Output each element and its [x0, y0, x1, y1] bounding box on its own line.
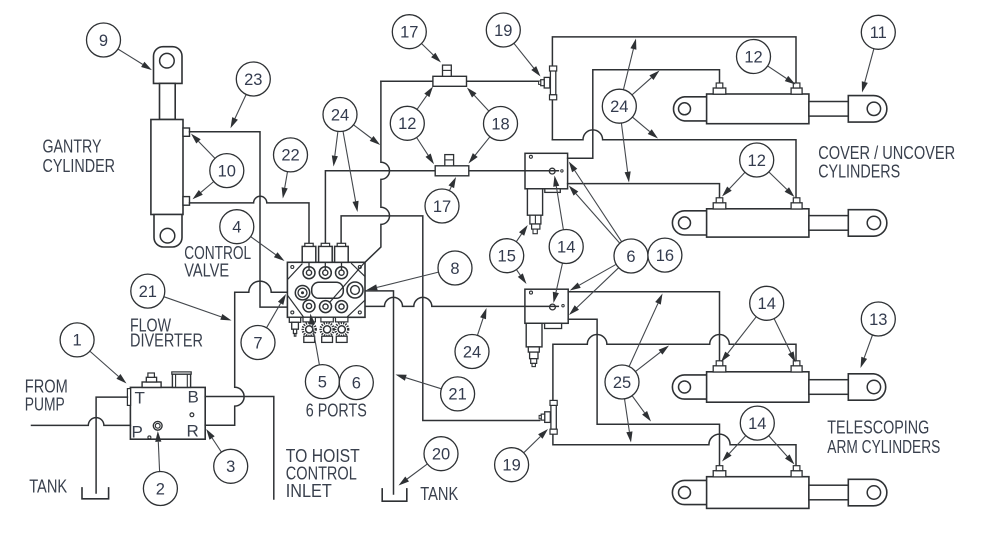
svg-text:P: P — [132, 423, 143, 442]
callout 22 — [274, 138, 308, 199]
svg-text:15: 15 — [498, 248, 516, 266]
svg-text:B: B — [188, 388, 199, 407]
svg-text:4: 4 — [232, 219, 241, 237]
svg-text:24: 24 — [610, 98, 628, 116]
svg-text:6: 6 — [352, 374, 361, 392]
svg-text:8: 8 — [450, 260, 459, 278]
svg-text:PUMP: PUMP — [25, 394, 65, 414]
cover cylinder 2 — [672, 209, 886, 237]
svg-text:14: 14 — [557, 238, 575, 256]
svg-text:TANK: TANK — [420, 484, 458, 504]
wire relief U2 to telescoping cylinder 1 cap port — [568, 292, 719, 361]
svg-text:14: 14 — [748, 415, 766, 433]
label TELESCOPING ARM CYLINDERS — [827, 418, 940, 457]
svg-text:25: 25 — [613, 374, 631, 392]
callout 1 — [60, 323, 126, 384]
wire cover inner loop — [568, 70, 720, 158]
relief valve block U1 body — [525, 153, 568, 189]
svg-text:16: 16 — [656, 247, 674, 265]
port cover cylinder 2 rod side — [791, 198, 802, 209]
tank symbol bottom — [382, 489, 407, 501]
svg-text:6 PORTS: 6 PORTS — [306, 400, 367, 420]
port cover cylinder 1 rod side — [791, 83, 802, 94]
label TANK left — [29, 477, 67, 497]
tee fitting 19 top — [539, 66, 557, 100]
wire valve back port riser — [365, 81, 390, 262]
svg-text:12: 12 — [748, 152, 766, 170]
svg-text:20: 20 — [432, 446, 450, 464]
callout 9 — [87, 23, 152, 70]
callout 24 bottom — [455, 308, 489, 369]
cover cylinder 1 — [673, 94, 886, 124]
wire valve port 8 to tank bottom — [365, 291, 394, 494]
svg-text:VALVE: VALVE — [184, 261, 229, 281]
callout 8 — [367, 251, 473, 290]
callout 14 mid — [549, 176, 583, 304]
wire gantry upper port to valve left lower port — [190, 132, 288, 307]
svg-text:TELESCOPING: TELESCOPING — [827, 418, 929, 438]
label CONTROL VALVE — [184, 243, 251, 281]
wire relief U2 lower to telescoping cylinder 2 cap port — [568, 319, 719, 465]
wire tee 2 up to telescoping cylinder 1 rod port — [553, 335, 796, 401]
inline fitting 17 top — [433, 65, 467, 86]
svg-text:COVER / UNCOVER: COVER / UNCOVER — [818, 143, 955, 163]
inline fitting 17 bottom — [435, 155, 469, 176]
svg-text:17: 17 — [433, 198, 451, 216]
svg-text:INLET: INLET — [286, 481, 332, 501]
svg-text:12: 12 — [398, 115, 416, 133]
wire valve left mid port to diverter R port — [205, 281, 287, 425]
wire valve lower right port to relief U2 — [365, 297, 558, 306]
svg-text:18: 18 — [491, 115, 509, 133]
callout 14 bottom — [722, 406, 795, 464]
svg-text:7: 7 — [253, 334, 262, 352]
svg-text:R: R — [187, 422, 199, 441]
svg-text:24: 24 — [331, 106, 349, 124]
port cover cylinder 2 cap side — [713, 198, 726, 209]
callout 24 top — [323, 98, 380, 213]
port telescoping cylinder 2 rod side — [791, 466, 802, 477]
label 6 PORTS — [306, 400, 367, 420]
label FROM PUMP — [25, 376, 68, 414]
port telescoping cylinder 1 rod side — [791, 361, 802, 372]
svg-text:TANK: TANK — [29, 477, 67, 497]
callout 17 top — [392, 15, 441, 63]
label TANK bottom — [420, 484, 458, 504]
svg-text:CYLINDERS: CYLINDERS — [818, 162, 900, 182]
port cover cylinder 1 cap side — [713, 83, 726, 94]
svg-text:3: 3 — [226, 458, 235, 476]
svg-text:1: 1 — [73, 332, 82, 350]
wire gantry lower port to valve cap 1 — [190, 196, 310, 243]
callout 17 bottom — [425, 177, 459, 223]
wire tee 2 down to telescoping cylinder 2 rod port — [553, 433, 796, 466]
callout 25 — [605, 294, 669, 443]
callout 19 top — [486, 13, 540, 77]
svg-text:5: 5 — [318, 373, 327, 391]
telescoping cylinder 1 — [672, 372, 885, 402]
svg-text:21: 21 — [448, 386, 466, 404]
svg-text:DIVERTER: DIVERTER — [130, 331, 203, 351]
callout 21 top — [131, 274, 232, 320]
callout 12 top right — [737, 40, 796, 85]
callout 5 — [305, 314, 339, 399]
tee fitting 19 bottom — [539, 400, 557, 434]
wire diverter T port to tank left — [96, 397, 127, 493]
callout 10 — [191, 134, 244, 200]
wire cover outer loop top — [552, 37, 796, 140]
flow diverter fittings and port letters — [132, 372, 199, 442]
svg-text:12: 12 — [744, 48, 762, 66]
callout 2 — [143, 431, 177, 506]
svg-text:ARM CYLINDERS: ARM CYLINDERS — [827, 437, 940, 457]
wire cover outer loop bottom — [552, 130, 796, 198]
callout 6 bottom — [339, 366, 373, 400]
svg-text:9: 9 — [99, 32, 108, 50]
svg-text:10: 10 — [218, 162, 236, 180]
port telescoping cylinder 2 cap side — [713, 466, 726, 477]
control valve — [287, 243, 365, 342]
svg-text:11: 11 — [870, 24, 887, 42]
callout 6 right — [569, 162, 648, 316]
label FLOW DIVERTER — [130, 316, 203, 351]
svg-text:T: T — [135, 389, 145, 408]
wire valve cap 2 to fitting line to relief U1 — [325, 171, 558, 244]
callout 14 right — [721, 286, 796, 362]
callout 15 — [490, 225, 528, 284]
callout 12 mid — [390, 87, 434, 165]
callout 3 — [206, 429, 248, 483]
callout 11 — [861, 15, 895, 92]
callout 12 right — [722, 143, 795, 197]
callout 21 bottom — [396, 375, 475, 411]
wire diverter B port to hoist inlet — [205, 397, 274, 500]
tank symbol left — [82, 488, 109, 499]
svg-text:14: 14 — [758, 295, 776, 313]
svg-text:GANTRY: GANTRY — [43, 137, 102, 157]
svg-text:CYLINDER: CYLINDER — [43, 156, 116, 176]
relief valve block U2 body — [525, 289, 568, 323]
callout 13 — [861, 302, 896, 368]
label TO HOIST CONTROL INLET — [286, 446, 360, 501]
svg-text:FROM: FROM — [25, 376, 68, 396]
wire top manifold line to tee 1 — [381, 80, 539, 82]
svg-text:2: 2 — [156, 480, 165, 498]
port telescoping cylinder 1 cap side — [713, 361, 726, 372]
gantry cylinder — [151, 47, 190, 247]
svg-text:6: 6 — [626, 248, 635, 266]
wire relief U1 to cover cylinder 2 cap port — [568, 184, 720, 198]
svg-text:19: 19 — [494, 22, 512, 40]
callout 19 bottom — [495, 429, 548, 482]
svg-text:13: 13 — [869, 311, 887, 329]
label GANTRY CYLINDER — [43, 137, 116, 176]
callout 20 — [399, 437, 459, 486]
wire valve cap 3 down to tee 2 feed — [341, 216, 539, 421]
svg-text:24: 24 — [463, 343, 481, 361]
svg-text:21: 21 — [139, 283, 157, 301]
callout 7 — [241, 294, 286, 360]
callout 23 — [231, 62, 271, 128]
flow diverter body — [127, 387, 205, 439]
telescoping cylinder 2 — [672, 477, 886, 509]
svg-text:19: 19 — [502, 457, 520, 475]
svg-text:22: 22 — [281, 147, 299, 165]
label COVER / UNCOVER CYLINDERS — [818, 143, 955, 181]
relief valve U2 adjuster and stem — [526, 291, 564, 367]
svg-text:17: 17 — [400, 24, 418, 42]
svg-text:23: 23 — [244, 71, 262, 89]
callout 16 — [648, 238, 682, 272]
callout 4 — [220, 210, 285, 261]
callout 24 right — [602, 39, 659, 183]
wire from pump to diverter P port — [32, 418, 131, 426]
callout 18 — [467, 88, 518, 164]
relief valve U1 adjuster and stem — [527, 155, 563, 233]
